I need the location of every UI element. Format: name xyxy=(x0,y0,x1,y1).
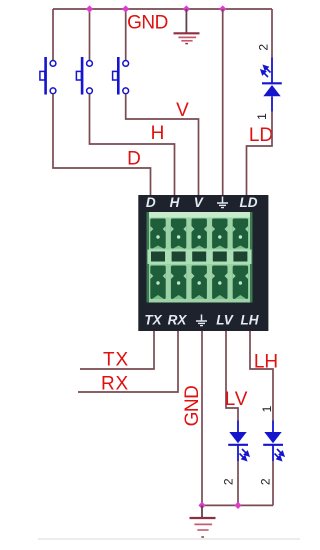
svg-text:LD: LD xyxy=(240,195,258,210)
svg-text:LH: LH xyxy=(254,352,278,373)
svg-text:H: H xyxy=(151,123,165,144)
connector top pin ground glyph xyxy=(217,197,228,208)
connector J1 black body xyxy=(138,195,268,331)
junction on rail at ground xyxy=(183,5,190,12)
wire top GND rail xyxy=(53,8,272,10)
wire net GND bottom xyxy=(201,331,203,505)
push button S3 xyxy=(113,57,129,95)
svg-text:H: H xyxy=(170,195,180,210)
wire net RX xyxy=(78,331,178,392)
push button S2 xyxy=(76,57,92,95)
wire button S3 top stub xyxy=(125,9,127,60)
svg-text:D: D xyxy=(146,195,156,210)
wire GND rail to connector GND pin xyxy=(222,9,224,196)
terminal cells row 1 xyxy=(150,219,248,249)
svg-text:V: V xyxy=(176,100,189,121)
svg-text:V: V xyxy=(194,195,204,210)
junction on rail at S3 xyxy=(122,5,129,12)
svg-text:2: 2 xyxy=(222,478,236,485)
svg-text:RX: RX xyxy=(168,313,188,328)
wire button S1 top stub xyxy=(52,9,54,60)
wire LED D2 cathode to rail xyxy=(237,461,239,505)
wire net LH to LED D3 xyxy=(250,331,273,421)
svg-text:D: D xyxy=(127,149,141,170)
connector green terminal block xyxy=(147,212,253,303)
wire bottom GND rail xyxy=(202,504,273,506)
ground symbol top xyxy=(174,9,200,44)
wire rail to LED D1 anode xyxy=(271,9,273,58)
svg-text:1: 1 xyxy=(255,113,269,120)
LED D3 (LH) xyxy=(263,421,284,462)
wire net V from S3 to connector xyxy=(126,94,199,196)
terminal cells row 2 xyxy=(150,266,248,300)
wire LED D1 cathode to connector LD pin xyxy=(247,112,273,196)
junction bottom rail at GND xyxy=(198,502,205,509)
svg-text:GND: GND xyxy=(182,386,203,427)
svg-text:RX: RX xyxy=(101,374,129,395)
svg-text:2: 2 xyxy=(256,44,270,51)
svg-text:LV: LV xyxy=(216,313,234,328)
svg-text:2: 2 xyxy=(259,478,273,485)
junction on rail at pin V-col xyxy=(219,5,226,12)
ground symbol bottom xyxy=(190,505,216,537)
LED D1 (LD) xyxy=(261,58,282,112)
wire net LV to LED D2 xyxy=(226,331,238,421)
wire button S2 top stub xyxy=(89,9,91,60)
wire net D from S1 to connector xyxy=(53,94,151,196)
LED D2 (LV) xyxy=(228,421,249,462)
connector bottom pin ground glyph xyxy=(196,315,207,326)
svg-text:1: 1 xyxy=(260,405,274,412)
svg-text:TX: TX xyxy=(103,350,129,371)
svg-text:GND: GND xyxy=(127,13,168,34)
wire net H from S2 to connector xyxy=(90,94,175,196)
wire LED D3 cathode to rail xyxy=(272,461,274,505)
push button S1 xyxy=(40,57,56,95)
junction bottom rail at LED D2 xyxy=(234,502,241,509)
svg-text:LV: LV xyxy=(225,389,248,410)
junction on rail at S2 xyxy=(86,5,93,12)
terminal middle slots xyxy=(151,252,247,262)
svg-text:TX: TX xyxy=(144,313,162,328)
svg-text:LH: LH xyxy=(241,313,259,328)
svg-text:LD: LD xyxy=(249,125,273,146)
wire net TX xyxy=(80,331,154,369)
